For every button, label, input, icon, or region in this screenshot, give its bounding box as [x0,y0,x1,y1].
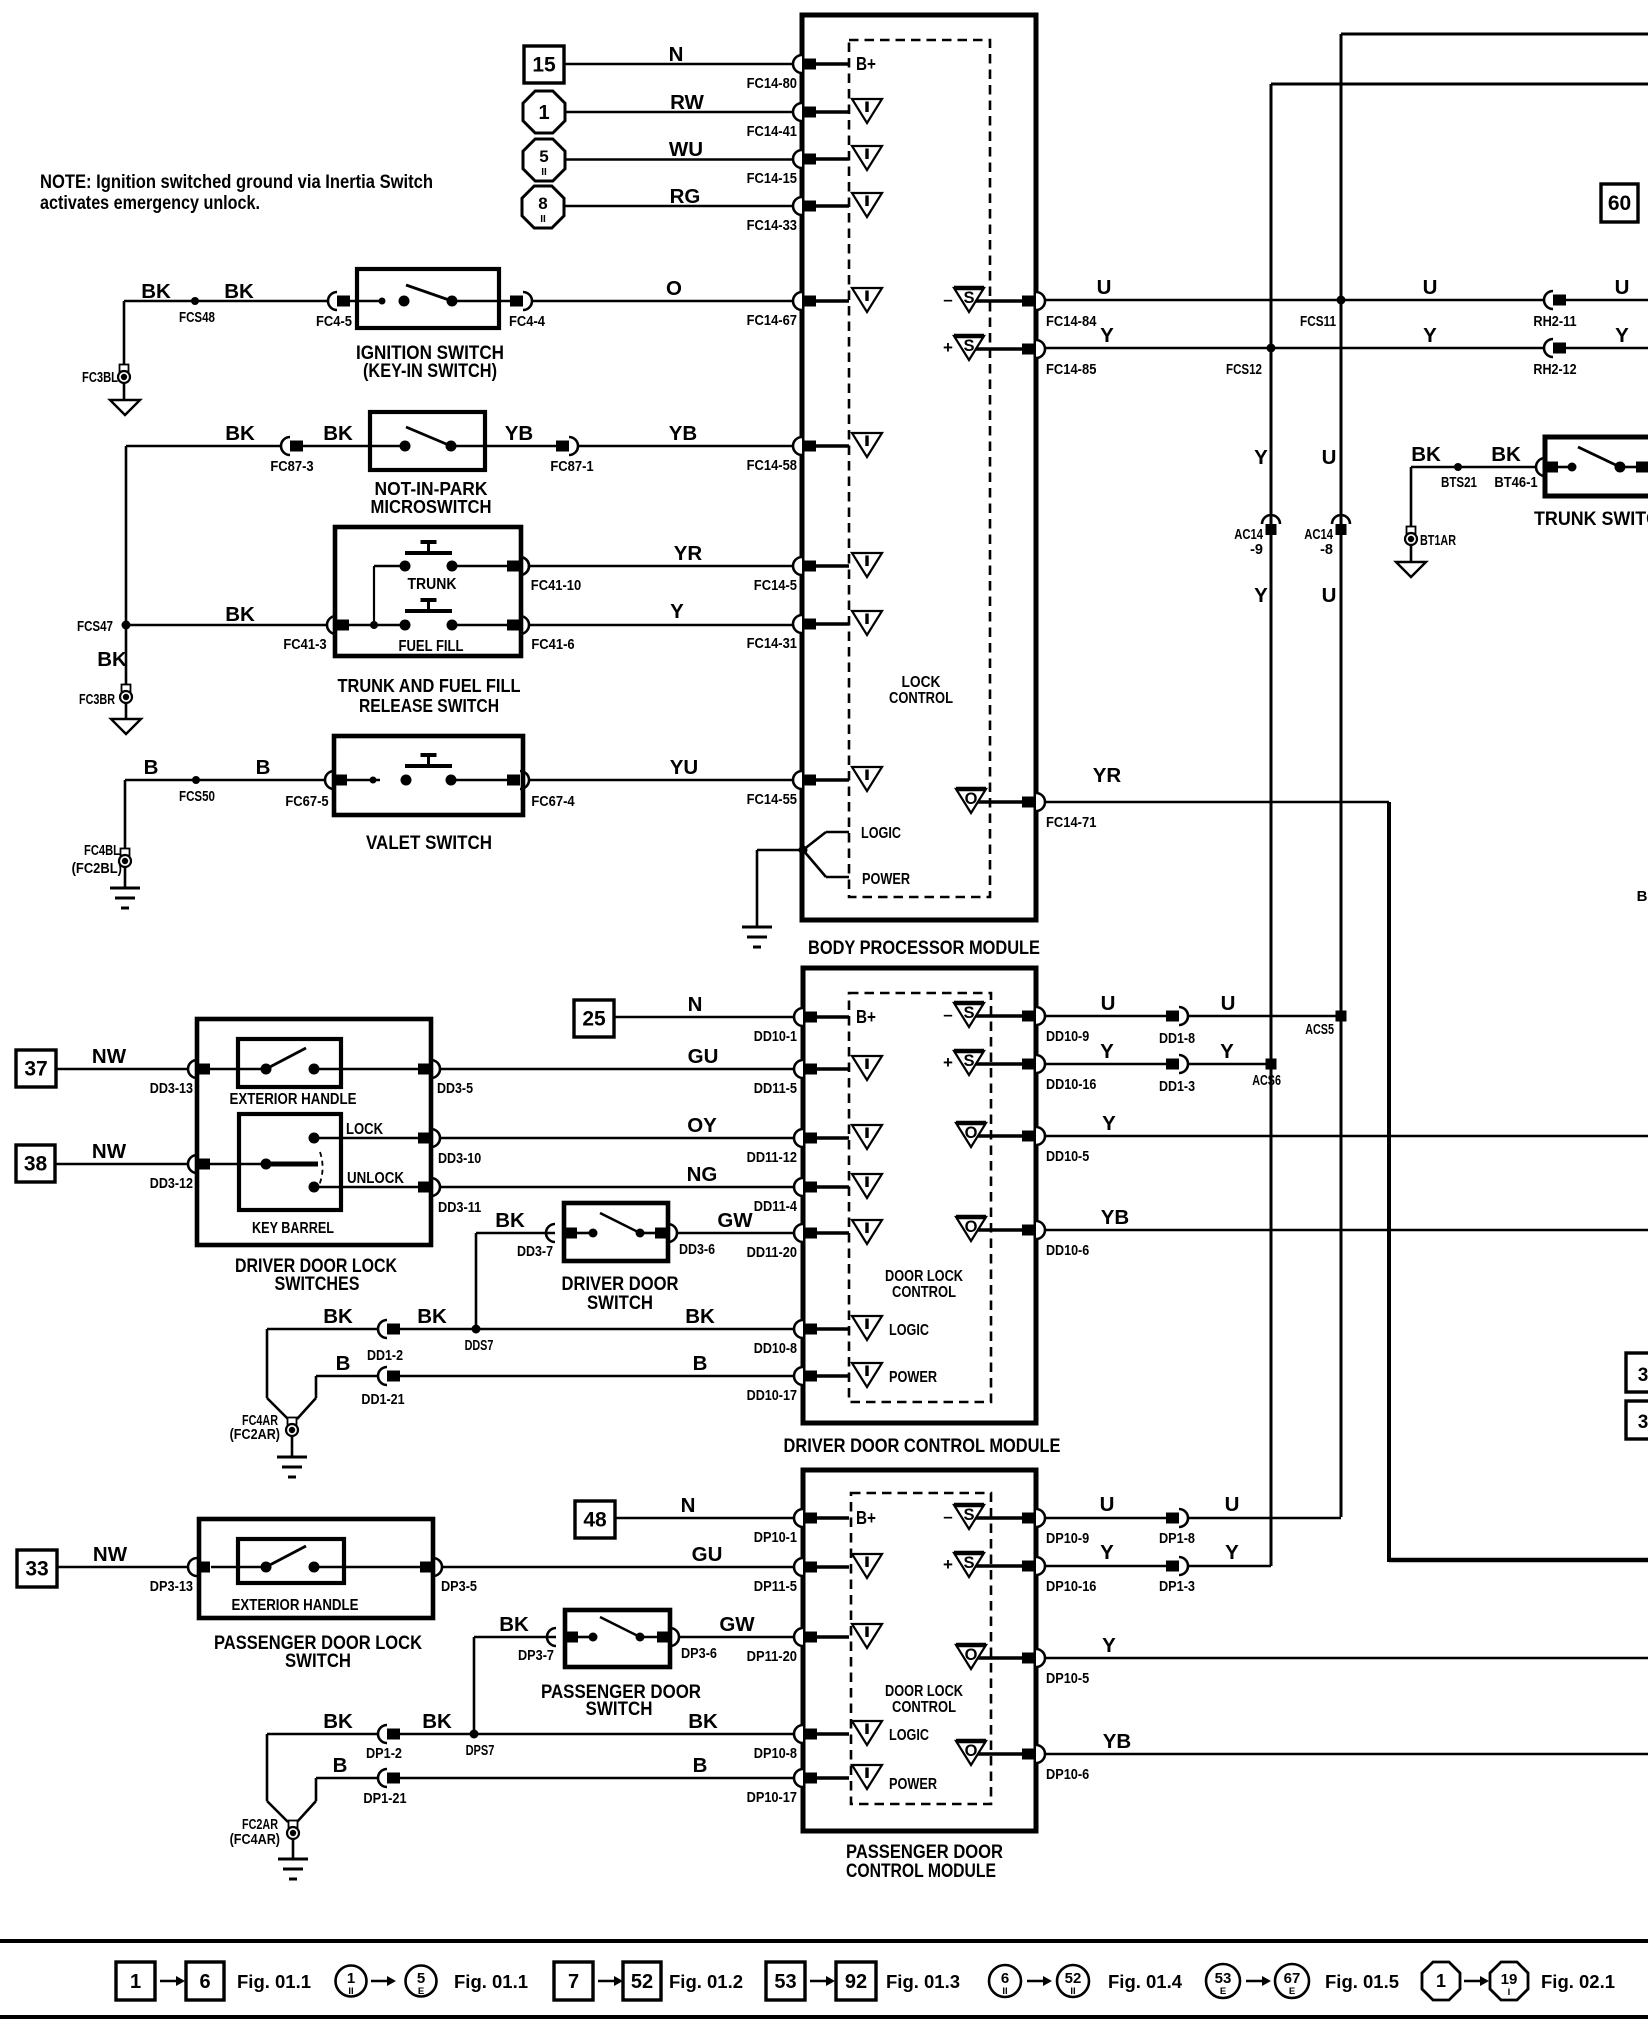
svg-text:FC4BL: FC4BL [84,843,120,859]
svg-text:BK: BK [422,1710,452,1733]
svg-text:Y: Y [1100,1541,1114,1564]
svg-text:FC14-41: FC14-41 [747,124,797,140]
svg-text:FC41-10: FC41-10 [531,578,581,594]
svg-text:TRUNK SWITCH: TRUNK SWITCH [1534,508,1648,530]
svg-text:LOCK: LOCK [346,1121,383,1138]
svg-text:DD1-3: DD1-3 [1159,1079,1195,1095]
svg-text:RH2-12: RH2-12 [1533,362,1576,378]
svg-text:GU: GU [688,1045,719,1068]
svg-text:FC3BR: FC3BR [79,692,115,708]
svg-text:YB: YB [1101,1206,1129,1229]
svg-text:KEY BARREL: KEY BARREL [252,1220,334,1237]
svg-text:FC41-6: FC41-6 [531,637,574,653]
svg-text:B: B [693,1754,708,1777]
svg-text:DD1-2: DD1-2 [367,1348,403,1364]
svg-text:(FC2AR): (FC2AR) [230,1427,281,1443]
svg-text:Y: Y [1225,1541,1239,1564]
svg-text:ACS6: ACS6 [1252,1073,1281,1089]
svg-text:B: B [336,1352,351,1375]
svg-text:FCS47: FCS47 [77,619,113,635]
svg-text:BK: BK [688,1710,718,1733]
svg-text:FC14-15: FC14-15 [747,171,797,187]
svg-text:DP10-16: DP10-16 [1046,1579,1096,1595]
svg-text:NW: NW [93,1543,128,1566]
svg-text:CONTROL: CONTROL [889,690,953,707]
svg-text:Y: Y [670,600,684,623]
svg-text:YR: YR [1093,764,1122,787]
svg-text:GU: GU [692,1543,723,1566]
svg-text:–: – [943,1507,952,1526]
svg-text:LOGIC: LOGIC [889,1322,929,1339]
svg-text:LOCK: LOCK [902,674,942,691]
svg-text:RG: RG [670,185,701,208]
svg-text:FC14-84: FC14-84 [1046,314,1096,330]
svg-text:FC67-5: FC67-5 [285,794,328,810]
svg-text:BK: BK [1491,443,1521,466]
svg-text:YB: YB [1103,1730,1131,1753]
svg-text:EXTERIOR HANDLE: EXTERIOR HANDLE [230,1091,357,1108]
svg-text:5: 5 [417,1970,425,1987]
svg-text:67: 67 [1284,1970,1301,1987]
svg-text:FC14-33: FC14-33 [747,218,797,234]
svg-text:DOOR LOCK: DOOR LOCK [885,1268,964,1285]
svg-text:Fig. 01.4: Fig. 01.4 [1108,1971,1183,1992]
svg-text:DD10-1: DD10-1 [754,1029,797,1045]
svg-text:FC4-4: FC4-4 [509,314,545,330]
svg-text:AC14: AC14 [1234,527,1263,543]
svg-text:15: 15 [532,54,556,77]
svg-text:52: 52 [631,1971,653,1993]
svg-text:3: 3 [1638,1412,1648,1433]
svg-text:FC14-55: FC14-55 [747,792,797,808]
svg-text:BK: BK [97,648,127,671]
svg-text:BK: BK [417,1305,447,1328]
svg-text:BK: BK [323,1305,353,1328]
svg-text:48: 48 [583,1509,607,1532]
svg-text:BK: BK [499,1613,529,1636]
svg-text:FC87-1: FC87-1 [550,459,593,475]
svg-text:U: U [1221,992,1236,1015]
svg-text:5: 5 [539,147,548,166]
svg-text:+: + [943,1555,953,1574]
svg-text:NG: NG [687,1163,718,1186]
svg-text:U: U [1225,1493,1240,1516]
svg-text:DD3-10: DD3-10 [438,1151,481,1167]
svg-text:FC4-5: FC4-5 [316,314,352,330]
svg-text:6: 6 [199,1971,210,1993]
svg-text:B+: B+ [856,1508,876,1528]
svg-text:AC14: AC14 [1304,527,1333,543]
svg-text:-8: -8 [1320,542,1333,558]
svg-text:3: 3 [1638,1365,1648,1386]
svg-text:NW: NW [92,1045,127,1068]
svg-text:DP10-17: DP10-17 [747,1790,797,1806]
svg-text:BK: BK [225,422,255,445]
svg-text:U: U [1322,584,1337,607]
svg-text:DP1-21: DP1-21 [363,1791,406,1807]
svg-text:RW: RW [670,91,704,114]
svg-text:II: II [540,214,546,225]
svg-text:B: B [144,756,159,779]
svg-text:–: – [943,1005,952,1024]
svg-text:DD3-7: DD3-7 [517,1244,553,1260]
svg-text:DD3-11: DD3-11 [438,1200,481,1216]
svg-text:8: 8 [538,194,547,213]
svg-text:BK: BK [225,603,255,626]
svg-text:1: 1 [347,1970,355,1987]
svg-text:S: S [963,289,974,307]
svg-text:N: N [688,993,703,1016]
svg-text:YR: YR [674,542,703,565]
svg-text:92: 92 [845,1971,867,1993]
svg-text:POWER: POWER [889,1776,937,1793]
svg-text:GW: GW [717,1209,753,1232]
svg-text:DPS7: DPS7 [466,1743,495,1759]
svg-text:POWER: POWER [862,871,910,888]
svg-text:SWITCH: SWITCH [587,1292,653,1314]
svg-text:DD10-8: DD10-8 [754,1341,797,1357]
svg-text:Y: Y [1102,1634,1116,1657]
svg-text:U: U [1322,446,1337,469]
svg-text:FCS48: FCS48 [179,310,215,326]
svg-text:LOGIC: LOGIC [861,825,901,842]
svg-text:BT46-1: BT46-1 [1494,475,1537,491]
svg-text:EXTERIOR HANDLE: EXTERIOR HANDLE [232,1597,359,1614]
svg-text:VALET SWITCH: VALET SWITCH [366,832,492,854]
svg-text:FC14-80: FC14-80 [747,76,797,92]
svg-text:Y: Y [1423,324,1437,347]
svg-text:II: II [1070,1986,1075,1997]
svg-text:B+: B+ [856,1007,876,1027]
svg-text:DD3-6: DD3-6 [679,1242,715,1258]
svg-text:19: 19 [1501,1971,1518,1988]
svg-text:I: I [1508,1987,1511,1998]
svg-text:DP3-13: DP3-13 [150,1579,193,1595]
svg-text:DP11-20: DP11-20 [747,1649,797,1665]
svg-text:DD10-16: DD10-16 [1046,1077,1096,1093]
svg-text:38: 38 [24,1153,48,1176]
svg-text:DD3-5: DD3-5 [437,1081,473,1097]
svg-text:FC14-58: FC14-58 [747,458,797,474]
svg-text:DP10-1: DP10-1 [754,1530,797,1546]
svg-text:N: N [669,43,684,66]
svg-text:Y: Y [1615,324,1629,347]
svg-text:7: 7 [568,1971,579,1993]
svg-text:FC3BL: FC3BL [82,370,118,386]
svg-text:DD1-21: DD1-21 [361,1392,404,1408]
svg-text:BT1AR: BT1AR [1420,533,1456,549]
svg-text:O: O [965,1646,978,1664]
svg-text:DP1-8: DP1-8 [1159,1531,1195,1547]
svg-text:LOGIC: LOGIC [889,1727,929,1744]
svg-text:YU: YU [670,756,698,779]
svg-text:S: S [963,1004,974,1022]
svg-text:E: E [1220,1986,1226,1997]
svg-text:BTS21: BTS21 [1441,475,1477,491]
svg-text:TRUNK: TRUNK [408,576,458,593]
svg-text:Fig. 01.2: Fig. 01.2 [669,1971,743,1992]
svg-text:YB: YB [669,422,697,445]
svg-text:DOOR LOCK: DOOR LOCK [885,1683,964,1700]
svg-text:1: 1 [130,1971,141,1993]
svg-text:SWITCH: SWITCH [586,1698,653,1720]
svg-text:BK: BK [224,280,254,303]
svg-text:S: S [963,1506,974,1524]
svg-text:DD11-12: DD11-12 [747,1150,797,1166]
svg-text:DD10-6: DD10-6 [1046,1243,1089,1259]
svg-text:NOT-IN-PARK: NOT-IN-PARK [375,479,488,499]
svg-text:Y: Y [1102,1112,1116,1135]
svg-text:(KEY-IN SWITCH): (KEY-IN SWITCH) [363,360,497,382]
svg-text:U: U [1101,992,1116,1015]
svg-text:OY: OY [687,1114,717,1137]
svg-text:(FC2BL): (FC2BL) [72,861,123,877]
svg-text:FCS11: FCS11 [1300,314,1336,330]
svg-text:DP10-8: DP10-8 [754,1746,797,1762]
svg-text:SWITCHES: SWITCHES [275,1273,360,1295]
svg-text:U: U [1097,276,1112,299]
svg-text:Fig. 01.5: Fig. 01.5 [1325,1971,1399,1992]
svg-text:GW: GW [719,1613,755,1636]
svg-text:CONTROL: CONTROL [892,1699,956,1716]
svg-text:BK: BK [1411,443,1441,466]
svg-text:DD10-5: DD10-5 [1046,1149,1089,1165]
svg-text:U: U [1615,276,1630,299]
svg-text:DD3-12: DD3-12 [150,1176,193,1192]
svg-text:UNLOCK: UNLOCK [347,1170,404,1187]
svg-text:RELEASE SWITCH: RELEASE SWITCH [359,696,499,716]
svg-text:TRUNK AND FUEL FILL: TRUNK AND FUEL FILL [338,676,521,696]
svg-text:S: S [963,1052,974,1070]
svg-text:DP11-5: DP11-5 [754,1579,797,1595]
svg-text:6: 6 [1001,1970,1009,1987]
svg-text:DRIVER DOOR CONTROL MODULE: DRIVER DOOR CONTROL MODULE [784,1435,1061,1457]
svg-text:E: E [418,1986,424,1997]
svg-text:DP3-7: DP3-7 [518,1648,554,1664]
svg-text:O: O [965,1218,978,1236]
svg-text:B: B [693,1352,708,1375]
svg-text:B+: B+ [856,54,876,74]
svg-text:FC2AR: FC2AR [242,1817,278,1833]
svg-text:E: E [1289,1986,1295,1997]
svg-text:FCS50: FCS50 [179,789,215,805]
svg-text:FC14-71: FC14-71 [1046,815,1096,831]
svg-text:B: B [256,756,271,779]
svg-text:53: 53 [774,1971,796,1993]
svg-text:U: U [1100,1493,1115,1516]
svg-text:25: 25 [582,1008,606,1031]
svg-text:CONTROL: CONTROL [892,1284,956,1301]
svg-text:Y: Y [1254,584,1268,607]
svg-text:Y: Y [1220,1040,1234,1063]
svg-text:ACS5: ACS5 [1305,1022,1334,1038]
svg-text:O: O [666,277,682,300]
svg-text:YB: YB [505,422,533,445]
svg-text:DD11-5: DD11-5 [754,1081,797,1097]
svg-text:FC14-31: FC14-31 [747,636,797,652]
svg-text:DDS7: DDS7 [465,1338,494,1354]
svg-text:CONTROL MODULE: CONTROL MODULE [846,1860,996,1882]
svg-text:33: 33 [25,1558,48,1581]
svg-text:BK: BK [495,1209,525,1232]
svg-text:FC14-67: FC14-67 [747,313,797,329]
svg-text:FC41-3: FC41-3 [283,637,326,653]
svg-text:DP1-3: DP1-3 [1159,1579,1195,1595]
svg-text:DP10-9: DP10-9 [1046,1531,1089,1547]
svg-text:B: B [333,1754,348,1777]
svg-text:Fig. 02.1: Fig. 02.1 [1541,1971,1615,1992]
svg-text:O: O [965,1124,978,1142]
svg-text:BODY PROCESSOR MODULE: BODY PROCESSOR MODULE [808,937,1040,959]
svg-text:(FC4AR): (FC4AR) [230,1832,281,1848]
svg-text:activates emergency unlock.: activates emergency unlock. [40,192,260,214]
svg-text:DP1-2: DP1-2 [366,1746,402,1762]
svg-text:37: 37 [24,1058,47,1081]
svg-text:+: + [943,338,953,357]
svg-text:Y: Y [1254,446,1268,469]
svg-text:Y: Y [1100,324,1114,347]
svg-text:FC14-85: FC14-85 [1046,362,1096,378]
svg-text:DD10-9: DD10-9 [1046,1029,1089,1045]
svg-text:O: O [965,1742,978,1760]
svg-text:DP10-5: DP10-5 [1046,1671,1089,1687]
svg-text:Fig. 01.1: Fig. 01.1 [454,1971,528,1992]
svg-text:BK: BK [141,280,171,303]
svg-text:BK: BK [323,422,353,445]
svg-text:DD1-8: DD1-8 [1159,1031,1195,1047]
svg-text:1: 1 [538,102,549,124]
svg-text:SWITCH: SWITCH [285,1650,351,1672]
svg-text:FCS12: FCS12 [1226,362,1262,378]
svg-text:NOTE: Ignition switched groun: NOTE: Ignition switched ground via Inert… [40,171,433,193]
svg-text:N: N [681,1494,696,1517]
svg-text:S: S [963,1554,974,1572]
svg-text:B: B [1637,888,1648,905]
svg-text:Fig. 01.1: Fig. 01.1 [237,1971,311,1992]
svg-text:+: + [943,1053,953,1072]
svg-text:WU: WU [669,138,703,161]
svg-text:DP3-6: DP3-6 [681,1646,717,1662]
svg-text:II: II [348,1986,353,1997]
svg-text:MICROSWITCH: MICROSWITCH [371,497,492,517]
svg-text:DD11-4: DD11-4 [754,1199,797,1215]
svg-text:II: II [541,167,547,178]
svg-text:DD10-17: DD10-17 [747,1388,797,1404]
svg-text:DD11-20: DD11-20 [747,1245,797,1261]
svg-text:FC87-3: FC87-3 [270,459,313,475]
svg-text:FUEL FILL: FUEL FILL [399,638,464,655]
svg-text:Fig. 01.3: Fig. 01.3 [886,1971,960,1992]
svg-text:NW: NW [92,1140,127,1163]
svg-text:BK: BK [685,1305,715,1328]
svg-text:O: O [965,790,978,808]
svg-text:1: 1 [1436,1971,1446,1991]
svg-text:Y: Y [1100,1040,1114,1063]
svg-text:DP10-6: DP10-6 [1046,1767,1089,1783]
svg-text:POWER: POWER [889,1369,937,1386]
svg-text:S: S [963,337,974,355]
svg-text:-9: -9 [1250,542,1263,558]
svg-text:DD3-13: DD3-13 [150,1081,193,1097]
svg-text:FC67-4: FC67-4 [531,794,574,810]
svg-text:BK: BK [323,1710,353,1733]
svg-text:DP3-5: DP3-5 [441,1579,477,1595]
svg-text:FC14-5: FC14-5 [754,578,797,594]
svg-text:U: U [1423,276,1438,299]
svg-text:60: 60 [1608,192,1631,215]
svg-text:II: II [1002,1986,1007,1997]
svg-text:–: – [943,290,952,309]
svg-text:52: 52 [1065,1970,1082,1987]
svg-text:53: 53 [1215,1970,1232,1987]
svg-text:RH2-11: RH2-11 [1533,314,1576,330]
